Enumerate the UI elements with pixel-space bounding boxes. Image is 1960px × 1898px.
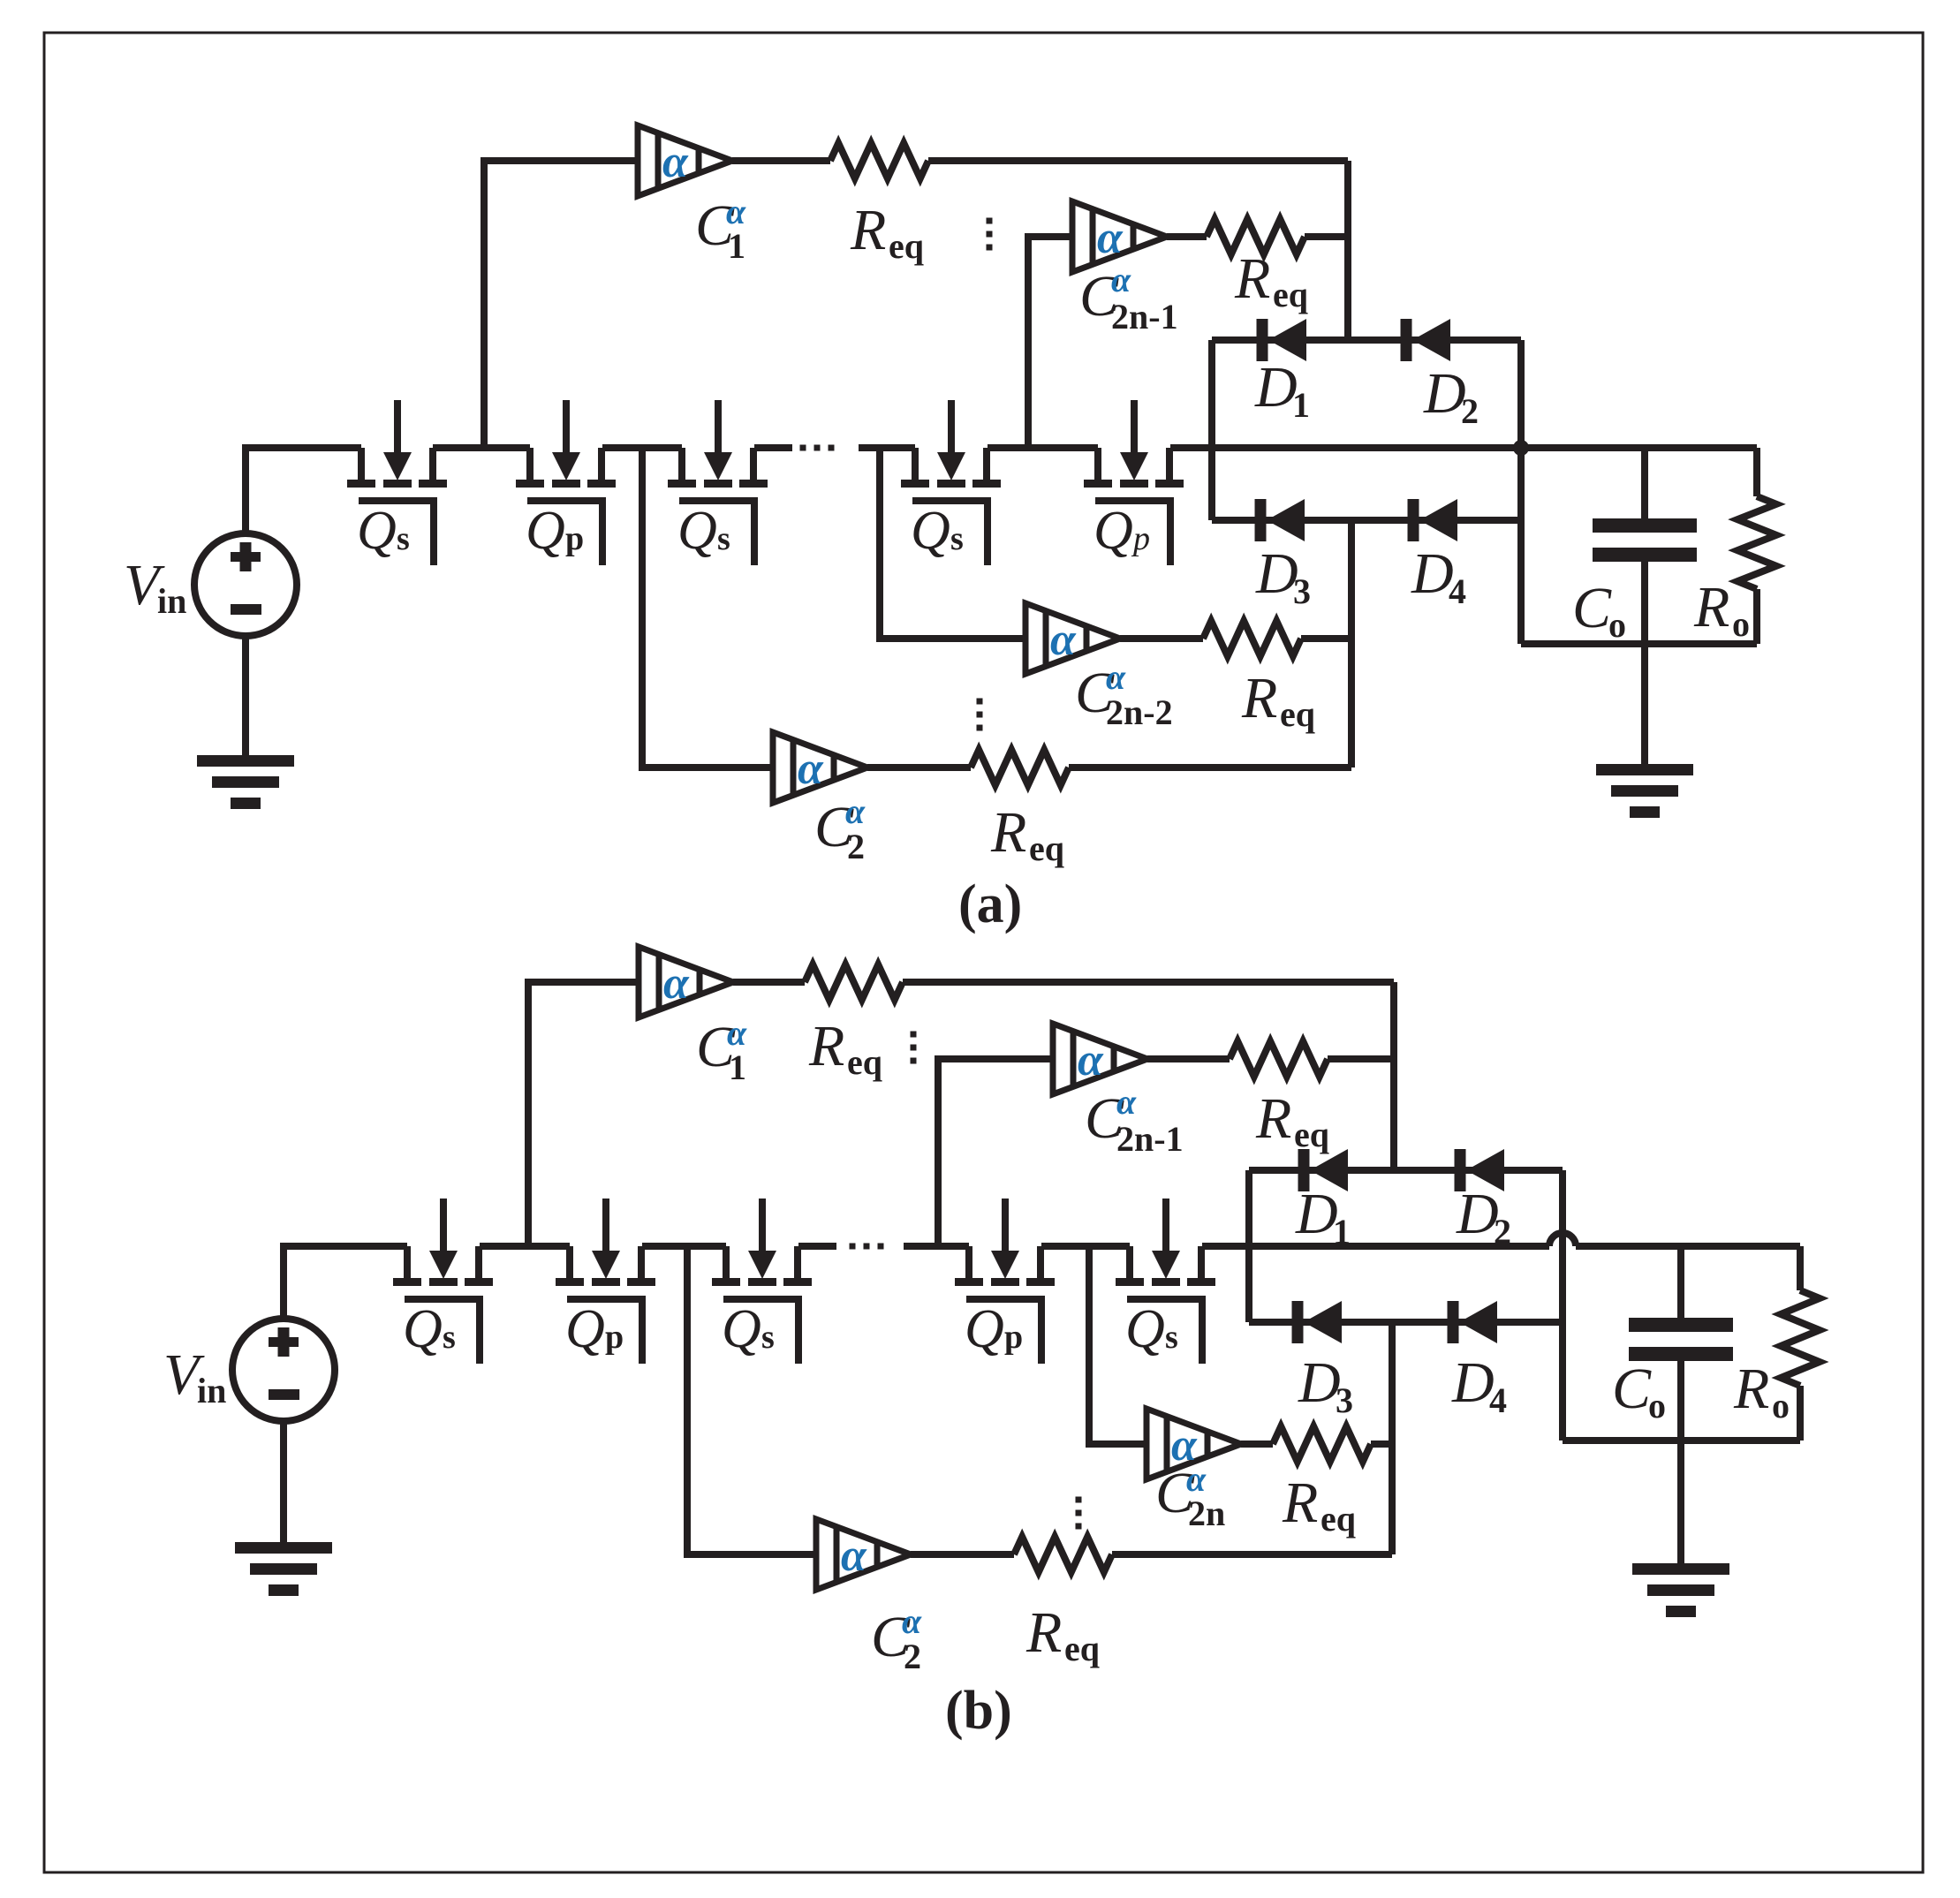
svg-text:o: o [1608, 605, 1626, 645]
svg-text:s: s [1165, 1319, 1178, 1356]
svg-text:R: R [1234, 246, 1270, 311]
svg-text:1: 1 [728, 226, 745, 266]
svg-text:2n-1: 2n-1 [1111, 297, 1178, 336]
svg-text:2: 2 [847, 827, 865, 866]
svg-text:eq: eq [1280, 694, 1315, 734]
svg-text:eq: eq [847, 1042, 882, 1082]
svg-text:Q: Q [965, 1299, 1004, 1359]
svg-text:in: in [157, 581, 186, 621]
svg-text:R: R [1255, 1086, 1291, 1151]
svg-text:α: α [1097, 213, 1124, 263]
svg-text:eq: eq [1294, 1115, 1329, 1154]
svg-text:D: D [1456, 1182, 1499, 1246]
svg-text:D: D [1255, 541, 1298, 606]
svg-text:R: R [990, 800, 1026, 865]
svg-text:α: α [902, 1601, 922, 1641]
svg-text:Q: Q [565, 1299, 605, 1359]
svg-text:1: 1 [729, 1047, 746, 1087]
svg-text:R: R [1693, 575, 1729, 639]
svg-text:D: D [1423, 361, 1466, 426]
svg-text:s: s [443, 1319, 456, 1356]
svg-text:eq: eq [1064, 1629, 1100, 1668]
svg-text:R: R [850, 198, 886, 262]
svg-text:o: o [1648, 1386, 1666, 1425]
svg-text:α: α [1111, 260, 1131, 299]
svg-text:in: in [197, 1371, 226, 1410]
svg-text:Q: Q [722, 1299, 761, 1359]
svg-text:1: 1 [1333, 1212, 1351, 1251]
svg-text:s: s [397, 520, 410, 557]
svg-text:eq: eq [1273, 275, 1308, 314]
svg-text:Q: Q [911, 501, 950, 561]
svg-text:o: o [1732, 604, 1750, 644]
svg-text:eq: eq [1321, 1499, 1356, 1539]
svg-text:D: D [1295, 1182, 1338, 1246]
svg-text:4: 4 [1489, 1380, 1507, 1420]
svg-text:o: o [1772, 1386, 1790, 1425]
svg-text:s: s [950, 520, 964, 557]
svg-text:α: α [1050, 615, 1077, 665]
svg-text:p: p [565, 520, 584, 557]
svg-text:α: α [845, 791, 866, 831]
svg-text:p: p [1004, 1319, 1023, 1356]
svg-text:Q: Q [677, 501, 717, 561]
svg-text:4: 4 [1449, 571, 1466, 611]
svg-text:D: D [1254, 355, 1298, 420]
svg-text:p: p [1131, 520, 1150, 557]
svg-text:Q: Q [526, 501, 565, 561]
svg-text:3: 3 [1336, 1380, 1353, 1420]
svg-text:2n-1: 2n-1 [1116, 1119, 1184, 1159]
svg-text:Q: Q [403, 1299, 443, 1359]
svg-text:s: s [717, 520, 730, 557]
svg-text:α: α [1106, 657, 1126, 697]
svg-text:R: R [1282, 1471, 1318, 1535]
svg-text:2: 2 [1461, 391, 1479, 431]
svg-text:α: α [798, 744, 824, 794]
svg-text:α: α [662, 137, 689, 187]
svg-text:3: 3 [1293, 571, 1311, 611]
svg-text:2n-2: 2n-2 [1106, 692, 1173, 732]
svg-text:eq: eq [889, 226, 924, 266]
svg-text:2: 2 [1494, 1212, 1511, 1251]
svg-text:p: p [605, 1319, 624, 1356]
svg-text:eq: eq [1029, 828, 1064, 868]
svg-text:R: R [1025, 1600, 1062, 1665]
svg-text:α: α [1078, 1035, 1104, 1085]
svg-text:(b): (b) [945, 1681, 1012, 1741]
svg-text:1: 1 [1292, 385, 1310, 425]
svg-text:D: D [1411, 541, 1454, 606]
svg-text:D: D [1451, 1350, 1495, 1415]
svg-text:R: R [808, 1014, 844, 1078]
svg-text:C: C [1572, 576, 1612, 640]
svg-text:2n: 2n [1188, 1493, 1225, 1533]
svg-text:(a): (a) [958, 874, 1022, 934]
svg-text:s: s [761, 1319, 775, 1356]
svg-text:R: R [1733, 1357, 1769, 1421]
svg-text:2: 2 [904, 1637, 921, 1676]
svg-text:D: D [1298, 1350, 1341, 1415]
svg-text:α: α [841, 1531, 867, 1581]
svg-text:Q: Q [357, 501, 397, 561]
svg-text:α: α [663, 958, 690, 1009]
svg-text:Q: Q [1094, 501, 1133, 561]
svg-text:C: C [1612, 1357, 1652, 1421]
svg-text:α: α [1116, 1082, 1137, 1122]
svg-text:Q: Q [1125, 1299, 1165, 1359]
svg-text:R: R [1241, 666, 1277, 730]
